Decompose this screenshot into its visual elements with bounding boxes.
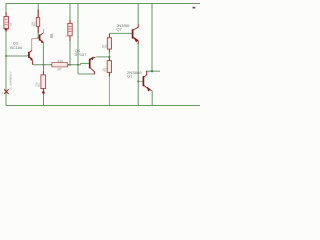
svg-text:330: 330: [57, 60, 63, 64]
transistor Q5: [37, 29, 44, 43]
wire R4 column from rail: [37, 4, 39, 39]
node Q1 base junction: [137, 80, 139, 82]
svg-text:Q1: Q1: [127, 73, 133, 78]
resistor R4: [31, 10, 40, 33]
svg-text:MW9081V: MW9081V: [9, 71, 13, 85]
svg-text:68: 68: [101, 45, 105, 49]
transistor Q1 2N3866: [141, 71, 152, 91]
resistor R7: [51, 60, 69, 72]
source X1: [1, 71, 13, 94]
resistor R2: [101, 34, 111, 53]
node R9 junction: [69, 64, 71, 66]
wire top supply rail: [6, 3, 201, 5]
wire left column: [5, 4, 7, 106]
transistor Q2 2N3055: [133, 24, 139, 44]
svg-text:10k: 10k: [35, 82, 39, 87]
resistor R5: [4, 12, 13, 32]
node jog junction: [77, 64, 79, 66]
svg-text:TIP137: TIP137: [74, 52, 87, 57]
wire jog to Q4 collector: [78, 4, 95, 75]
svg-text:39: 39: [101, 68, 105, 72]
label top-right speck: [193, 7, 196, 9]
svg-text:Q2: Q2: [116, 26, 122, 31]
svg-text:01: 01: [9, 86, 12, 90]
wire input node to Q3 base: [6, 55, 27, 57]
wire output stub: [146, 70, 160, 72]
svg-text:BC184: BC184: [10, 45, 23, 50]
transistor Q3 BC184: [27, 50, 33, 64]
wire Q1 emitter to ground: [151, 91, 154, 106]
resistor R1: [35, 71, 46, 93]
resistor R9: [50, 20, 72, 41]
wire right column from rail: [151, 4, 153, 72]
transistor Q4 TIP137: [90, 57, 96, 75]
wire R2 top to Q2 base: [109, 32, 132, 34]
wire mid horizontal net: [33, 63, 90, 64]
svg-text:R8: R8: [50, 34, 54, 38]
wire Q2 emitter down to ground: [137, 44, 139, 106]
resistor R3: [101, 56, 111, 106]
wire Q3 collector link: [32, 39, 39, 51]
wire Q2 collector to rail: [137, 4, 139, 25]
wire Q4 emitter to R2 bottom: [96, 52, 109, 57]
node input junction: [5, 55, 7, 57]
svg-text:1M: 1M: [31, 22, 35, 27]
svg-text:4k7: 4k7: [7, 21, 11, 26]
node output junction: [151, 70, 153, 72]
wire R1 column to ground: [43, 65, 45, 106]
wire Q1 base tap: [138, 80, 141, 82]
wire R9 column from rail: [69, 4, 71, 65]
wire Q5 emitter down: [42, 43, 44, 65]
node mid cross junction: [43, 64, 45, 66]
svg-text:R7: R7: [58, 68, 62, 72]
wire bottom ground rail: [6, 105, 200, 107]
